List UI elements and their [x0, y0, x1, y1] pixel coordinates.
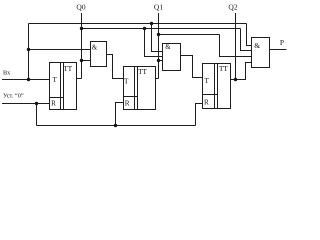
svg-text:&: &: [92, 44, 98, 51]
wire: Vx riser to top bus: [28, 24, 30, 80]
wire: line1 branch down into AND2 input 1: [152, 24, 163, 52]
svg-text:Уст. “0”: Уст. “0”: [3, 93, 24, 100]
wire: line2 end down into AND3 input 2: [241, 29, 252, 51]
gate U1 AND box: [91, 42, 107, 67]
wire: Q0 bus line2: [82, 28, 241, 30]
node: junction Q0 riser / AND1 branch: [80, 59, 83, 62]
node: junction Vx line / riser: [27, 78, 30, 81]
wire: Q2 under-path into AND3 input 4: [236, 63, 252, 80]
wire: AND1 output to T of FF2: [107, 55, 124, 79]
wire: Vx input line to T of FF1: [2, 79, 50, 81]
FF1 input column divider: [60, 63, 62, 110]
FF3 second divider: [217, 64, 219, 109]
FF2 input column divider: [134, 67, 136, 110]
FF3 input column divider: [214, 64, 216, 109]
flip-flop DD2 box: [124, 67, 156, 110]
svg-text:P: P: [280, 38, 284, 47]
wire: AND3 output P: [270, 49, 287, 51]
gate U3 AND box: [252, 38, 270, 68]
svg-text:R: R: [125, 100, 130, 108]
node: junction Q0 riser / line2: [80, 27, 83, 30]
wire: AND2 output to T of FF3: [181, 56, 203, 78]
wire: Q1 riser: [158, 13, 160, 79]
node: junction rail / FF2 R riser: [114, 124, 117, 127]
wire: Q1 bus line3: [159, 34, 220, 36]
svg-text:T: T: [53, 76, 58, 84]
FF1 R cell top line: [50, 97, 64, 99]
node: junction Q1 riser / AND2 branch: [157, 59, 160, 62]
svg-text:R: R: [51, 99, 56, 107]
FF2 R cell top line: [124, 96, 138, 98]
FF2 output stub to Q1 riser: [156, 78, 159, 80]
svg-text:&: &: [165, 44, 171, 51]
node: junction Vx riser / AND1 branch: [27, 48, 30, 51]
wire: reset Ust.0 line to R of FF1: [2, 103, 50, 105]
FF1 output stub to Q0 riser: [77, 78, 82, 80]
wire: Vx branch to AND1 input 1: [29, 49, 91, 51]
flip-flop DD1 box: [50, 63, 77, 110]
wire: rail end riser to R of FF3: [196, 104, 203, 126]
flip-flop DD3 box: [203, 64, 231, 109]
svg-text:&: &: [254, 41, 260, 50]
svg-text:TT: TT: [138, 68, 147, 76]
wire: Q0 branch to AND1 input 2: [82, 60, 91, 62]
wire: Q0 riser: [81, 13, 83, 79]
svg-text:Вх: Вх: [3, 70, 11, 77]
wire: reset drop to bottom rail: [36, 104, 38, 126]
svg-text:Q0: Q0: [76, 3, 85, 12]
wire: rail riser to R of FF2: [116, 103, 124, 126]
wire: Vx top bus line1: [29, 23, 247, 25]
FF3 R cell top line: [203, 94, 218, 96]
gate U2 AND box: [163, 44, 181, 71]
svg-text:TT: TT: [219, 65, 228, 73]
svg-text:R: R: [204, 98, 209, 106]
wire: line2 branch down into AND2 input 2: [145, 29, 163, 57]
node: junction line2 / AND2 branch: [143, 27, 146, 30]
node: junction line1 / AND2 branch: [150, 22, 153, 25]
wire: Q2 riser: [235, 13, 237, 80]
svg-text:TT: TT: [63, 65, 72, 73]
wire: reset bottom rail: [37, 125, 196, 127]
node: junction Q2 riser / FF3 stub: [234, 78, 237, 81]
node: junction Q1 riser / line3: [157, 33, 160, 36]
FF3 output stub to Q2 riser: [231, 79, 236, 81]
svg-text:Q1: Q1: [154, 3, 163, 12]
svg-text:Q2: Q2: [228, 3, 237, 12]
FF2 second divider: [137, 67, 139, 110]
FF1 second divider: [63, 63, 65, 110]
wire: line3 end down into AND3 input 3: [220, 35, 252, 57]
wire: Q1 branch to AND2 input 3: [159, 60, 163, 62]
svg-text:T: T: [124, 77, 129, 85]
svg-text:T: T: [205, 77, 210, 85]
node: junction reset line / drop: [35, 102, 38, 105]
wire: line1 end down into AND3 input 1: [247, 24, 252, 46]
